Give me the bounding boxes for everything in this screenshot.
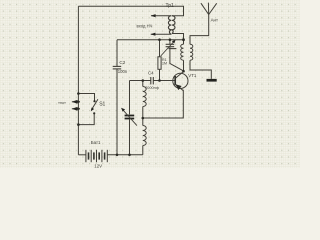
svg-text:C2: C2	[119, 60, 125, 65]
svg-text:12V: 12V	[94, 163, 102, 168]
wire: C3 top lead	[169, 40, 171, 44]
coil L1 upper winding	[143, 87, 146, 107]
junction dots	[77, 38, 185, 156]
ground bar	[207, 79, 217, 82]
wire: Tr1 secondary bottom lead to bus	[172, 34, 184, 45]
svg-text:100n: 100n	[118, 69, 128, 74]
transformer Tr1 left winding	[168, 16, 171, 35]
wire: Tr1 primary top lead	[151, 15, 171, 17]
wire: L1 top lead	[142, 81, 144, 87]
transistor VT1	[173, 73, 188, 88]
wire: external tap upper	[72, 101, 80, 103]
wire: C3 bottom lead to collector	[170, 47, 184, 71]
wire: R1 bottom lead	[159, 69, 161, 80]
connector arrows on left rail	[72, 100, 78, 104]
capacitor C2	[113, 66, 122, 69]
wire: L1 bottom to ground rail	[142, 146, 144, 155]
variable capacitor C5	[125, 115, 135, 117]
wire: switch branch top	[78, 94, 94, 102]
wire: bottom rail left of battery	[78, 154, 86, 156]
svg-text:C4: C4	[148, 71, 154, 76]
antenna	[201, 3, 217, 15]
svg-text:VT1: VT1	[188, 73, 197, 78]
wire: collector lead	[175, 60, 183, 78]
wire: external tap lower	[72, 108, 80, 110]
wire: base lead	[153, 80, 175, 82]
wire: switch branch bottom	[78, 113, 94, 124]
oscillator transformer right winding	[190, 44, 193, 60]
switch S1 blade	[91, 99, 98, 110]
wire: left supply rail	[77, 6, 79, 155]
connector arrow input bottom	[151, 33, 156, 36]
wire: R1 top lead	[159, 40, 161, 57]
wire: antenna feed from L2 top	[190, 15, 209, 45]
oscillator transformer left winding	[181, 44, 184, 60]
resistor R1	[158, 57, 161, 70]
trimmer capacitor C3	[166, 44, 177, 48]
svg-text:Бат1: Бат1	[91, 140, 101, 145]
wire: C2 branch lower	[116, 69, 118, 155]
coil L1 lower winding	[143, 126, 146, 146]
paper background	[0, 0, 300, 168]
wire: L2 bottom to ground	[190, 60, 211, 79]
wire: top supply rail	[78, 6, 183, 15]
svg-text:«по»: «по»	[58, 101, 66, 105]
transformer Tr1 right winding	[172, 16, 175, 34]
wire: emitter to tap	[143, 90, 184, 118]
wire: supply bus2	[117, 39, 184, 41]
wire: Tr1 primary bottom lead	[151, 33, 172, 35]
wire: base bus left of C4	[130, 80, 151, 82]
svg-text:1M: 1M	[162, 62, 167, 66]
wire: C2 branch upper	[116, 40, 118, 66]
svg-text:Тр1: Тр1	[166, 3, 175, 9]
wire: C5 top branch	[129, 81, 131, 115]
svg-text:вход НЧ: вход НЧ	[137, 23, 153, 28]
wire: C5 bottom branch	[129, 119, 131, 154]
svg-text:S1: S1	[99, 101, 105, 107]
battery Бат1	[86, 150, 107, 162]
svg-text:Ант: Ант	[211, 17, 218, 22]
wire: L1 middle with tap	[142, 107, 144, 126]
connector arrow input top	[151, 14, 156, 17]
capacitor C4	[151, 77, 154, 84]
svg-text:2000пф: 2000пф	[145, 86, 159, 90]
wire: bottom ground rail	[107, 154, 143, 156]
